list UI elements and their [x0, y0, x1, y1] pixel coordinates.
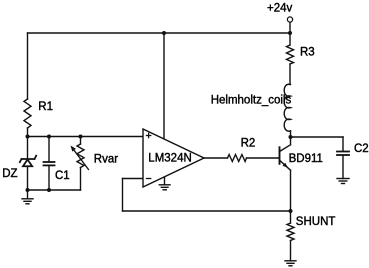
- svg-text:C2: C2: [354, 143, 369, 155]
- svg-text:DZ: DZ: [2, 168, 17, 180]
- svg-text:Helmholtz_coils: Helmholtz_coils: [211, 94, 292, 106]
- svg-text:R1: R1: [38, 101, 53, 113]
- svg-text:R2: R2: [241, 137, 256, 149]
- svg-text:C1: C1: [55, 170, 70, 182]
- svg-text:LM324N: LM324N: [148, 152, 191, 164]
- svg-text:SHUNT: SHUNT: [296, 216, 336, 228]
- svg-text:BD911: BD911: [289, 153, 323, 165]
- svg-text:R3: R3: [300, 47, 315, 59]
- svg-text:Rvar: Rvar: [94, 153, 118, 165]
- svg-text:+24v: +24v: [267, 3, 293, 15]
